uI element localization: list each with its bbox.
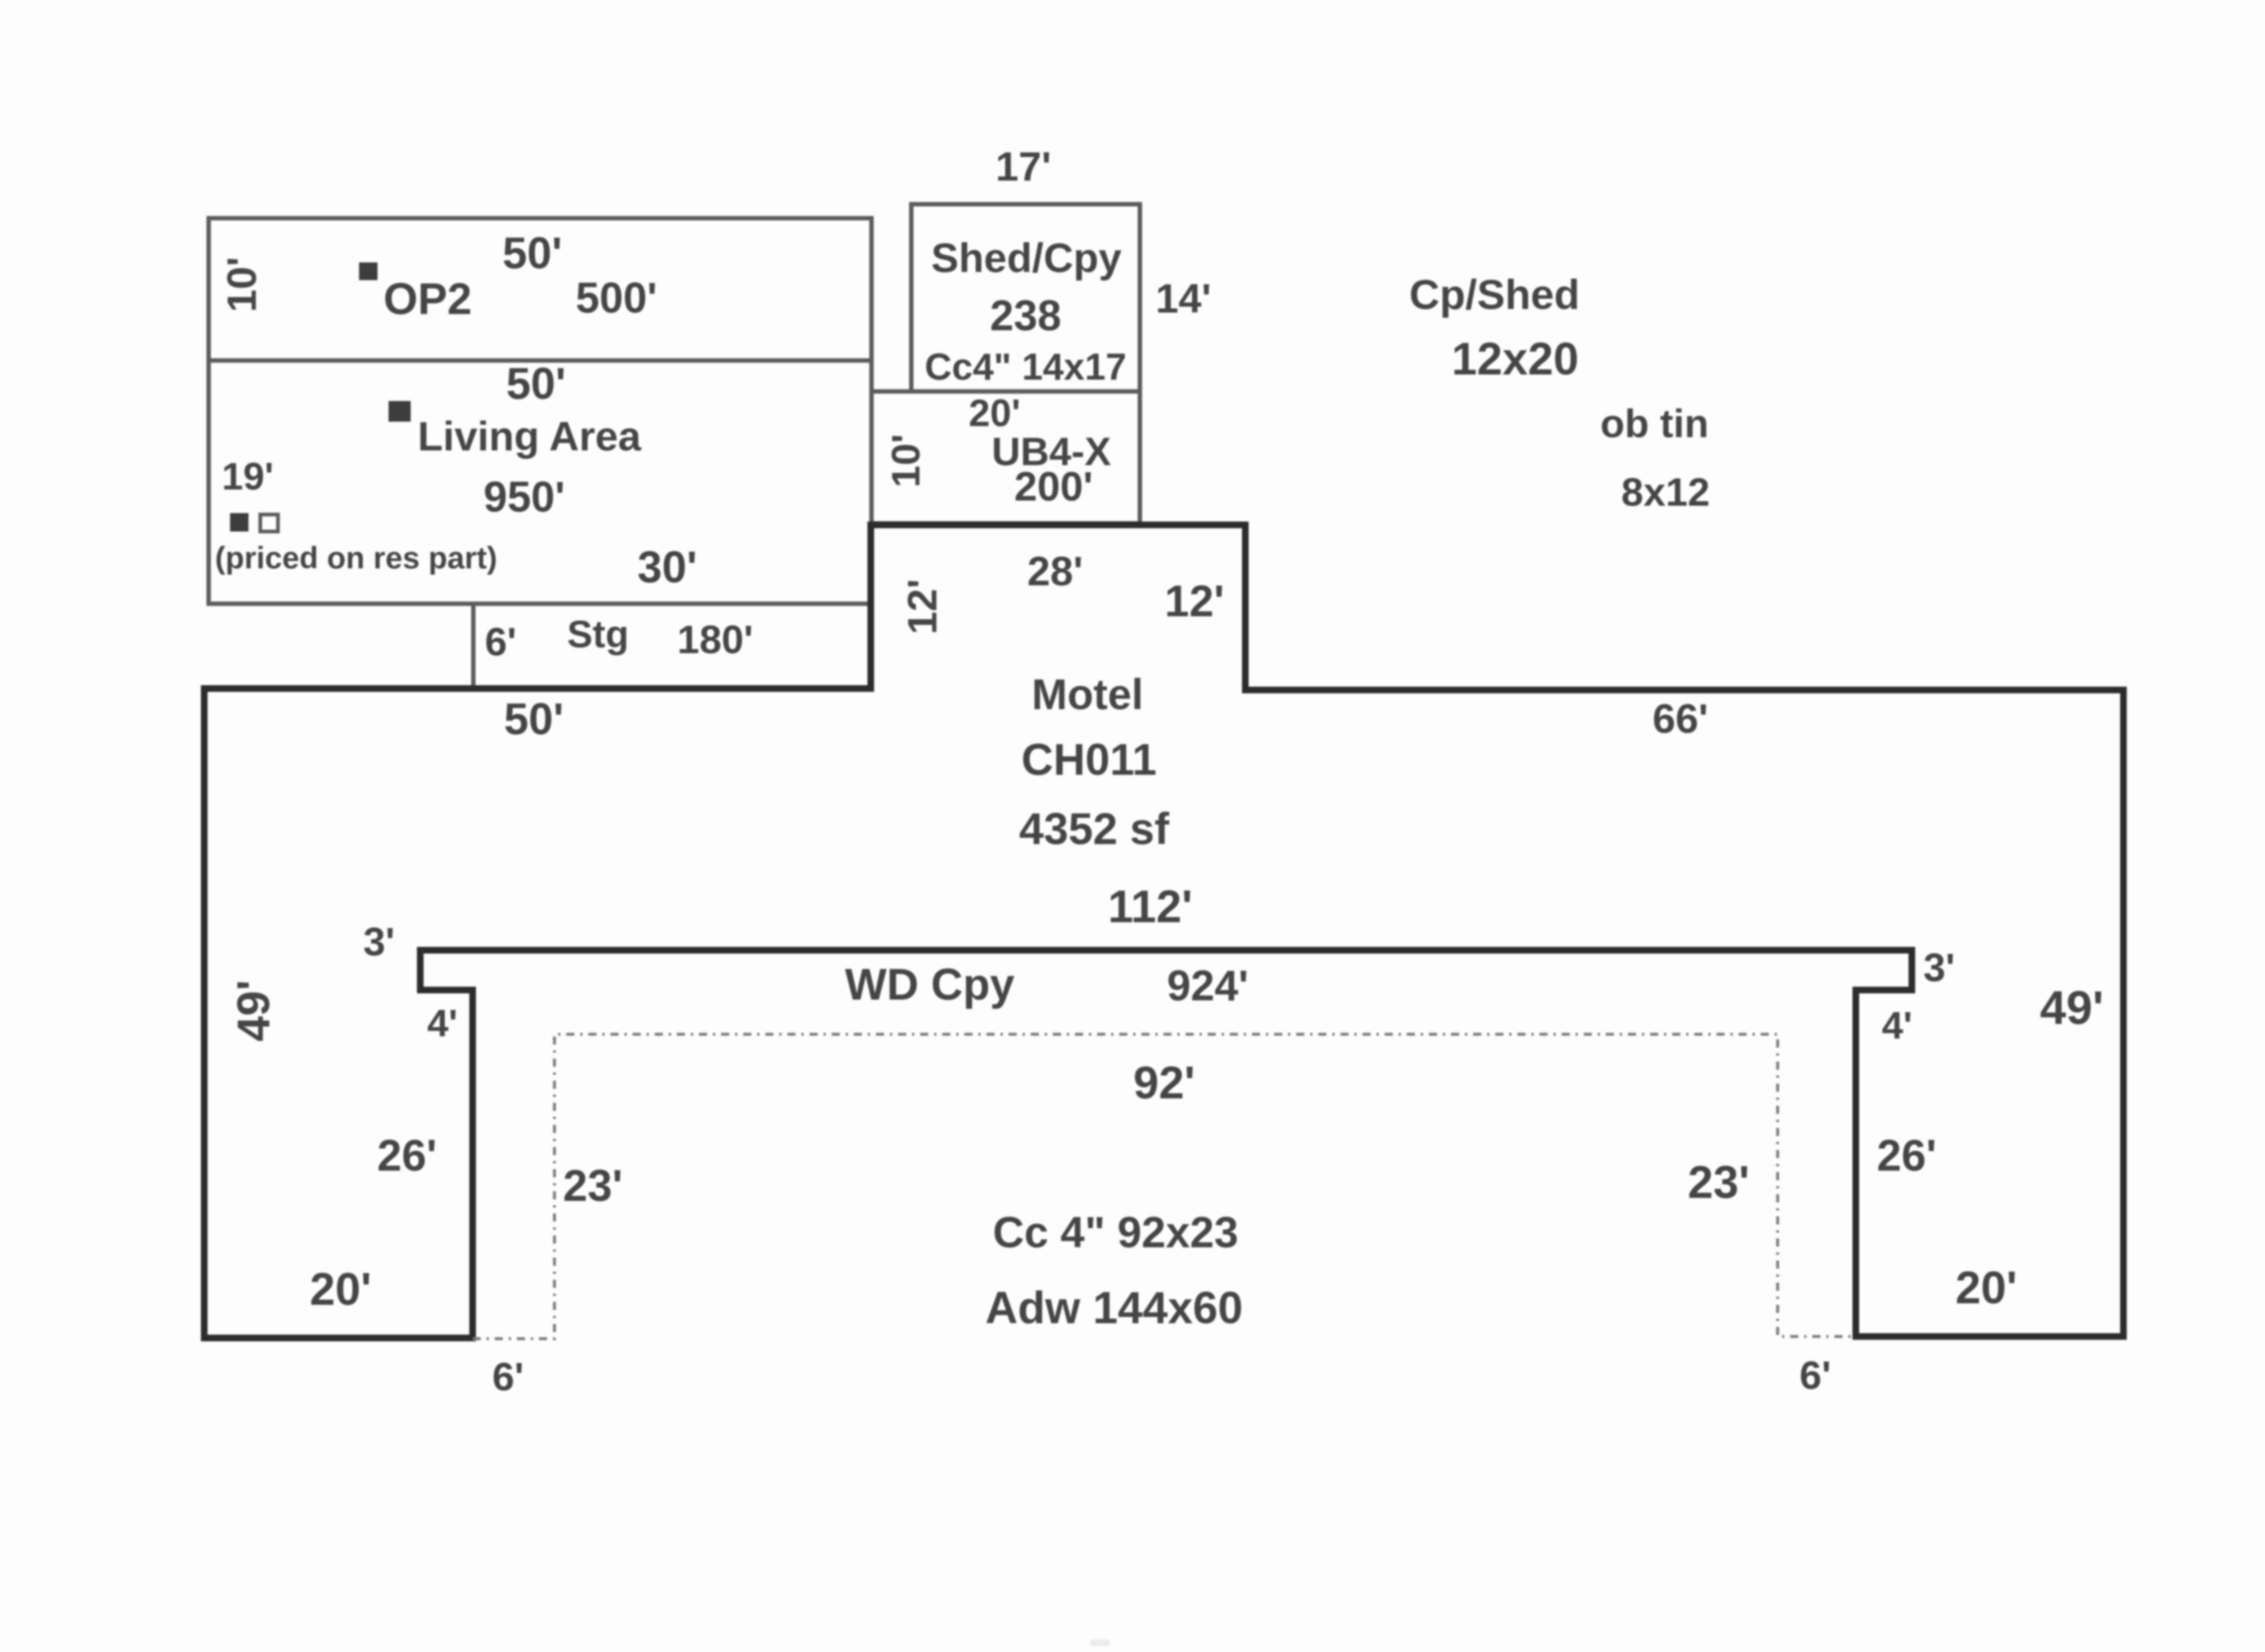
OP2 porch outline [209, 218, 871, 360]
svg-text:200': 200' [1015, 463, 1093, 509]
svg-text:19': 19' [222, 456, 274, 498]
svg-text:4': 4' [427, 1003, 457, 1045]
svg-text:ob tin: ob tin [1601, 402, 1709, 446]
marker square OP2 [359, 262, 377, 280]
svg-text:OP2: OP2 [383, 274, 472, 324]
svg-text:500': 500' [576, 274, 658, 322]
svg-text:92': 92' [1133, 1058, 1195, 1109]
Motel building outline [204, 525, 2123, 1338]
svg-text:28': 28' [1027, 548, 1083, 594]
svg-text:6': 6' [485, 620, 517, 664]
svg-text:26': 26' [1876, 1131, 1936, 1180]
Stg storage outline [473, 604, 871, 689]
svg-text:3': 3' [363, 920, 395, 964]
svg-text:Living Area: Living Area [418, 413, 642, 459]
svg-text:50': 50' [502, 229, 562, 278]
svg-text:Motel: Motel [1031, 671, 1143, 719]
svg-text:Cp/Shed: Cp/Shed [1409, 271, 1579, 318]
svg-text:20': 20' [969, 392, 1020, 435]
svg-text:CH011: CH011 [1021, 735, 1156, 784]
svg-text:23': 23' [1688, 1157, 1750, 1208]
svg-text:6': 6' [1800, 1353, 1831, 1398]
svg-text:26': 26' [377, 1131, 436, 1180]
Shed/Cpy outline [911, 204, 1140, 391]
svg-text:WD Cpy: WD Cpy [845, 960, 1015, 1009]
svg-text:4352 sf: 4352 sf [1019, 804, 1170, 854]
svg-text:12x20: 12x20 [1452, 334, 1579, 385]
Living Area outline [209, 360, 871, 604]
concrete pad dashed outline [473, 1034, 1856, 1339]
svg-text:30': 30' [637, 543, 697, 592]
svg-text:12': 12' [1164, 576, 1224, 626]
svg-text:Stg: Stg [567, 613, 629, 656]
svg-text:180': 180' [678, 618, 754, 662]
svg-text:20': 20' [310, 1264, 372, 1315]
svg-text:4': 4' [1882, 1005, 1912, 1048]
svg-text:50': 50' [506, 359, 566, 408]
marker squares res part [230, 513, 248, 532]
svg-text:49': 49' [229, 980, 279, 1042]
svg-text:950': 950' [484, 473, 566, 521]
svg-text:8x12: 8x12 [1621, 470, 1710, 515]
svg-text:924': 924' [1167, 962, 1249, 1010]
watermark [1090, 1639, 1110, 1646]
svg-text:17': 17' [995, 143, 1051, 189]
svg-text:50': 50' [504, 694, 563, 744]
svg-text:Cc4" 14x17: Cc4" 14x17 [925, 346, 1127, 388]
svg-text:23': 23' [563, 1161, 622, 1210]
svg-text:10': 10' [218, 257, 265, 313]
svg-text:Shed/Cpy: Shed/Cpy [931, 234, 1121, 281]
svg-text:66': 66' [1652, 695, 1708, 742]
svg-text:49': 49' [2040, 981, 2104, 1034]
svg-text:3': 3' [1924, 946, 1955, 990]
svg-text:(priced on res part): (priced on res part) [215, 540, 498, 575]
marker square Living Area [389, 401, 411, 422]
svg-text:Cc 4" 92x23: Cc 4" 92x23 [992, 1208, 1238, 1257]
svg-text:112': 112' [1108, 882, 1193, 933]
svg-text:14': 14' [1155, 275, 1211, 321]
svg-text:20': 20' [1955, 1263, 2017, 1314]
UB4-X outline [871, 391, 1140, 523]
svg-text:10': 10' [884, 434, 928, 488]
svg-text:6': 6' [493, 1355, 524, 1399]
svg-text:12': 12' [899, 579, 945, 635]
svg-text:238: 238 [990, 292, 1062, 340]
svg-text:Adw 144x60: Adw 144x60 [985, 1283, 1242, 1333]
